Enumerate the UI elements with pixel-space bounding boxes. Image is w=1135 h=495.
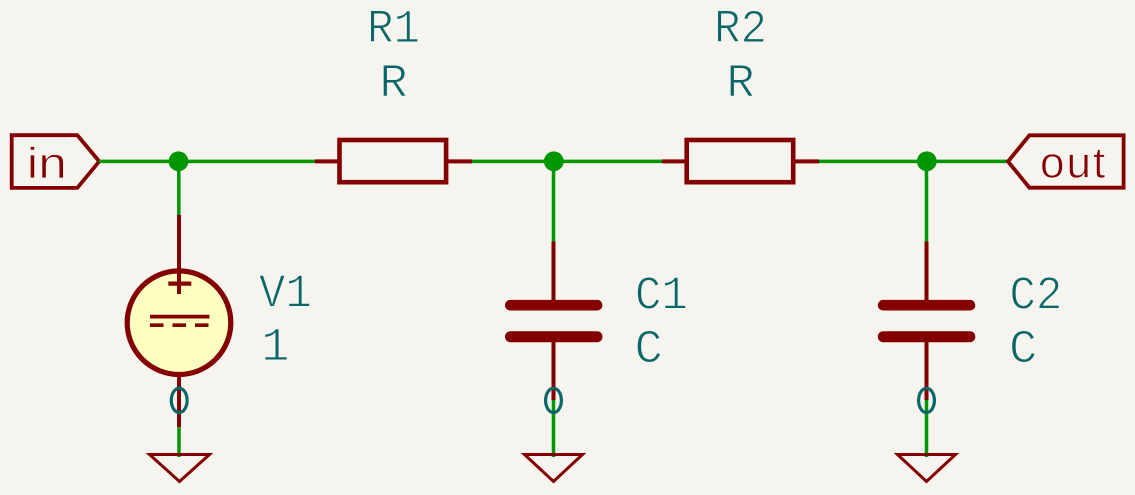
C2 bottom pin bbox=[925, 341, 929, 400]
C1 top pin bbox=[552, 242, 556, 302]
svg-text:V1: V1 bbox=[259, 269, 312, 322]
wire node A to R1 left pin bbox=[179, 160, 316, 164]
svg-text:C2: C2 bbox=[1009, 271, 1062, 324]
C2 top pin bbox=[925, 242, 929, 302]
svg-text:R: R bbox=[726, 59, 754, 112]
global label "in" (input port) bbox=[12, 135, 100, 188]
V1 top pin bbox=[177, 215, 181, 294]
wire node A down to V1 pin bbox=[177, 161, 181, 215]
C2 bottom plate bbox=[878, 331, 976, 342]
resistor R1 bbox=[315, 140, 472, 182]
svg-text:R1: R1 bbox=[367, 4, 420, 57]
net label 0 at C1 ground bbox=[546, 388, 562, 412]
C2 top plate bbox=[878, 300, 976, 311]
V1 plus sign bbox=[168, 282, 191, 286]
svg-text:R2: R2 bbox=[714, 4, 767, 57]
wire R1 to node B bbox=[472, 160, 554, 164]
wire V1 pin to ground bbox=[177, 427, 181, 457]
ground symbol under C2 bbox=[898, 455, 956, 482]
ground symbol under V1 bbox=[150, 455, 210, 482]
junction node C bbox=[917, 151, 937, 171]
V1 bottom pin bbox=[177, 374, 181, 427]
V1 plate line solid bbox=[150, 315, 210, 319]
svg-text:C: C bbox=[1009, 324, 1037, 377]
capacitor C1 bbox=[505, 242, 603, 401]
global label "out" (output port) bbox=[1008, 135, 1124, 187]
net label 0 at C2 ground bbox=[919, 388, 935, 412]
resistor R2 bbox=[662, 140, 819, 182]
net label 0 at V1 ground bbox=[171, 388, 187, 412]
capacitor C2 bbox=[878, 242, 976, 401]
wire node C to out tip bbox=[927, 160, 1009, 164]
wire node C down to C2 pin bbox=[925, 161, 929, 241]
svg-text:1: 1 bbox=[261, 322, 289, 375]
wire R2 to node C bbox=[819, 160, 927, 164]
wire in tip to node A bbox=[99, 160, 179, 164]
svg-text:C: C bbox=[635, 324, 663, 377]
C1 bottom plate bbox=[505, 331, 603, 342]
svg-text:C1: C1 bbox=[635, 271, 688, 324]
C1 top plate bbox=[505, 300, 603, 311]
V1 body circle bbox=[127, 271, 231, 375]
voltage source V1 bbox=[127, 215, 231, 427]
wire node B to R2 left pin bbox=[554, 160, 663, 164]
wire node B down to C1 pin bbox=[552, 161, 556, 241]
svg-text:out: out bbox=[1040, 139, 1107, 188]
ground symbol under C1 bbox=[525, 455, 583, 482]
svg-text:in: in bbox=[27, 139, 67, 188]
svg-text:R: R bbox=[379, 59, 407, 112]
junction node A bbox=[169, 151, 189, 171]
V1 plate line dashed bbox=[150, 323, 210, 327]
wire C2 pin to ground bbox=[925, 400, 929, 457]
junction node B bbox=[544, 151, 564, 171]
wire C1 pin to ground bbox=[552, 400, 556, 457]
C1 bottom pin bbox=[552, 341, 556, 400]
